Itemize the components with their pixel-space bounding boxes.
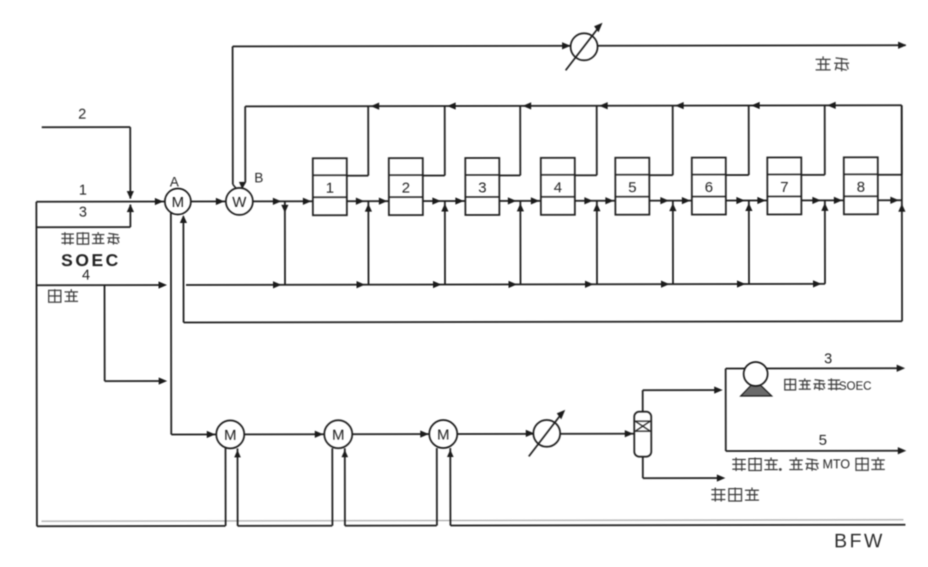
arrowhead condensate outlet bbox=[717, 474, 726, 481]
reactor stage 4 bbox=[541, 158, 575, 215]
label 再循环至SOEC bbox=[785, 378, 796, 390]
arrowhead BFW up into cooler at x=338 bbox=[341, 450, 348, 458]
arrowhead into mixer A bbox=[155, 198, 164, 205]
heater B bbox=[226, 188, 253, 215]
arrowhead mid header at column 3 bbox=[508, 281, 517, 288]
arrowhead mid header at column 1 bbox=[356, 281, 365, 288]
svg-text:4: 4 bbox=[554, 179, 562, 196]
arrowhead after reactor 7 bbox=[812, 197, 821, 204]
wire BFW pipes under cooler at x=230 bbox=[224, 448, 226, 525]
arrowhead into heater B bbox=[216, 198, 225, 205]
svg-text:3: 3 bbox=[824, 351, 832, 367]
svg-text:3: 3 bbox=[79, 205, 87, 221]
wire right vertical (header riser) bbox=[901, 105, 903, 321]
wire downcomer from mixer A bbox=[170, 213, 172, 435]
svg-text:M: M bbox=[332, 427, 345, 444]
wire upper recycle header bbox=[245, 105, 901, 106]
label 冷凝物 (condensate) bbox=[711, 488, 725, 502]
wire BFW line segment 1 bbox=[37, 525, 225, 527]
arrowhead into cooler 3 bbox=[420, 430, 429, 437]
svg-text:5: 5 bbox=[628, 179, 636, 196]
wire cooler1 to cooler2 bbox=[244, 433, 324, 435]
arrowhead end of main line bbox=[890, 197, 899, 204]
svg-text:1: 1 bbox=[326, 180, 334, 197]
wire main line reactor 4 to reactor 5 bbox=[575, 200, 615, 202]
arrowhead stream 3 joins node bbox=[127, 204, 134, 212]
arrowhead stream 2 joins node bbox=[127, 191, 134, 199]
label 空气 (air) bbox=[49, 289, 61, 303]
wire left border BFW riser bbox=[35, 202, 38, 526]
reactor stage 2 bbox=[389, 158, 423, 215]
arrowhead BFW up into cooler at x=443 bbox=[447, 450, 454, 458]
wire BFW line segment 2 bbox=[238, 525, 333, 527]
arrowhead into cooler 2 bbox=[315, 431, 324, 438]
wire steam feed line (stream 1) bbox=[36, 201, 164, 203]
svg-text:6: 6 bbox=[705, 179, 713, 196]
wire quench riser at column 4 bbox=[596, 201, 598, 284]
wire main line reactor 7 to reactor 8 bbox=[801, 199, 843, 201]
wire reactor 5 top outlet to header bbox=[649, 174, 673, 176]
arrowhead before reactor 1 bbox=[303, 198, 312, 205]
svg-text:2: 2 bbox=[78, 107, 86, 123]
arrowhead up into main line at column 2 bbox=[441, 204, 448, 212]
arrowhead overhead into fork bbox=[714, 386, 723, 393]
wire main line reactor 1 to reactor 2 bbox=[347, 200, 389, 202]
wire quench riser at column 2 bbox=[444, 201, 446, 284]
svg-text:1: 1 bbox=[79, 183, 87, 199]
svg-text:5: 5 bbox=[819, 432, 827, 449]
wire BFW line segment 4 bbox=[450, 524, 905, 527]
wire valve V2 to separator bbox=[560, 433, 634, 435]
reactor stage 3 bbox=[465, 158, 499, 215]
wire BFW pipes under cooler at x=443 bbox=[436, 448, 438, 525]
arrowhead before reactor 2 bbox=[379, 198, 388, 205]
wire quench riser at column 3 bbox=[519, 201, 521, 284]
svg-text:MTO: MTO bbox=[823, 457, 851, 471]
arrowhead after reactor 5 bbox=[660, 197, 669, 204]
arrowhead mid header at column 4 bbox=[585, 281, 594, 288]
arrowhead after reactor 1 bbox=[356, 198, 365, 205]
wire lower return header riser into A bbox=[182, 216, 184, 322]
separator S1 bbox=[634, 412, 651, 457]
wire main line reactor 6 to reactor 7 bbox=[726, 199, 767, 201]
reactor stage 5 bbox=[615, 158, 649, 215]
arrowhead air branch into downcomer bbox=[159, 377, 168, 384]
wire tail-gas line to vent bbox=[233, 45, 906, 46]
svg-text:B: B bbox=[254, 170, 263, 185]
svg-text:M: M bbox=[224, 427, 237, 444]
arrowhead up into main line at column 5 bbox=[669, 203, 676, 211]
label tail gas 尾气 bbox=[816, 56, 831, 70]
arrowhead before reactor 5 bbox=[605, 197, 614, 204]
arrowhead into separator bbox=[625, 430, 634, 437]
mixer A bbox=[165, 188, 191, 214]
reactor stage 1 bbox=[313, 158, 347, 215]
svg-text:2: 2 bbox=[402, 180, 410, 197]
arrowhead syngas outlet bbox=[898, 447, 907, 454]
arrowhead up into main line at column 6 bbox=[745, 203, 752, 211]
wire stream 4 air line bbox=[37, 284, 163, 286]
svg-text:SOEC: SOEC bbox=[61, 250, 121, 270]
arrowhead left on upper header at column 1 bbox=[371, 103, 380, 110]
valve V2 (letdown valve) bbox=[529, 410, 566, 457]
wire main line reactor 3 to reactor 4 bbox=[499, 200, 540, 202]
wire cooler2 to cooler3 bbox=[352, 433, 429, 435]
svg-text:4: 4 bbox=[82, 268, 90, 284]
wire air branch down bbox=[104, 285, 106, 381]
wire A to B bbox=[191, 200, 226, 202]
arrowhead before reactor 6 bbox=[682, 197, 691, 204]
arrowhead into cooler 1 bbox=[207, 431, 216, 438]
arrowhead left on upper header at column 2 bbox=[447, 102, 456, 109]
arrowhead up into mixer A bbox=[180, 215, 187, 223]
wire stream 2 feed bbox=[42, 126, 130, 128]
arrowhead before reactor 4 bbox=[531, 197, 540, 204]
arrowhead after reactor 6 bbox=[736, 197, 745, 204]
svg-text:W: W bbox=[232, 194, 247, 211]
wire reactor 4 top outlet to header bbox=[575, 174, 597, 176]
wire recycle to SOEC (stream 3 out) bbox=[726, 367, 901, 369]
wire first quench branch down bbox=[284, 201, 286, 284]
svg-text:SOEC: SOEC bbox=[839, 381, 872, 393]
wire BFW ghost line bbox=[41, 520, 903, 522]
cooler E1 bbox=[216, 420, 244, 448]
wire stream 3 feed bbox=[36, 226, 130, 228]
svg-text:8: 8 bbox=[857, 179, 865, 196]
arrowhead mid header at column 5 bbox=[661, 281, 670, 288]
label 合成气去往MTO回路 bbox=[732, 458, 746, 472]
wire quench riser at column 5 bbox=[672, 201, 674, 284]
reactor stage 8 bbox=[844, 157, 878, 214]
arrowhead up into main line at column 3 bbox=[517, 203, 524, 211]
label 再循环至 (recycle caption) bbox=[61, 232, 74, 245]
arrowhead down on first branch bbox=[281, 205, 288, 213]
arrowhead down into heater B bbox=[239, 182, 246, 190]
wire main line reactor 5 to reactor 6 bbox=[649, 200, 691, 202]
arrowhead into valve V2 bbox=[526, 430, 535, 437]
arrowhead stream 4 into downcomer bbox=[158, 281, 167, 288]
wire quench riser at column 6 bbox=[748, 201, 750, 284]
wire fork vertical bbox=[725, 369, 727, 451]
arrowhead after B bbox=[273, 198, 282, 205]
wire main line B to reactor 1 bbox=[253, 200, 313, 202]
wire quench riser at column 7 bbox=[824, 200, 826, 283]
arrowhead left on upper header at column 4 bbox=[599, 102, 608, 109]
arrowhead tail-gas outlet bbox=[898, 42, 907, 49]
svg-text:M: M bbox=[437, 426, 450, 443]
wire reactor 1 top outlet to header bbox=[347, 175, 368, 177]
svg-text:3: 3 bbox=[478, 179, 486, 196]
cooler E3 bbox=[429, 420, 457, 448]
arrowhead left on upper header at column 3 bbox=[523, 102, 532, 109]
arrowhead left on upper header at column 6 bbox=[751, 102, 760, 109]
wire lower return header bbox=[184, 321, 902, 322]
arrowhead mid header before first branch bbox=[273, 281, 282, 288]
wire reactor 6 top outlet to header bbox=[726, 174, 749, 176]
arrowhead after reactor 3 bbox=[508, 197, 517, 204]
wire upper header down into heater B bbox=[244, 106, 246, 182]
svg-text:A: A bbox=[170, 174, 179, 189]
arrowhead recycle to SOEC bbox=[897, 365, 906, 372]
wire reactor 8 top outlet to header bbox=[878, 174, 902, 176]
wire cooler3 to valve V2 bbox=[457, 433, 533, 435]
valve V1 (control valve on tail gas line) bbox=[566, 23, 603, 71]
wire quench riser at column 1 bbox=[367, 201, 369, 284]
wire main line after reactor 8 bbox=[878, 199, 902, 201]
cooler E2 bbox=[324, 420, 352, 448]
wire syngas to MTO (stream 5) bbox=[726, 450, 902, 452]
svg-text:BFW: BFW bbox=[834, 530, 885, 552]
arrowhead before reactor 3 bbox=[455, 197, 464, 204]
arrowhead on tail-gas line before valve bbox=[562, 42, 571, 49]
arrowhead left on upper header at column 7 bbox=[827, 102, 836, 109]
arrowhead BFW up into cooler at x=230 bbox=[234, 450, 241, 458]
arrowhead mid header at column 6 bbox=[737, 280, 746, 287]
arrowhead up on right vertical bbox=[898, 204, 905, 212]
arrowhead mid header at column 2 bbox=[433, 281, 442, 288]
wire condensate line bbox=[642, 457, 644, 478]
svg-text:7: 7 bbox=[780, 179, 788, 196]
svg-text:M: M bbox=[172, 194, 185, 211]
arrowhead up into main line at column 1 bbox=[365, 204, 372, 212]
wire main line reactor 2 to reactor 3 bbox=[423, 200, 465, 202]
wire reactor 2 top outlet to header bbox=[423, 175, 445, 177]
wire downcomer elbow to cooler 1 bbox=[171, 433, 216, 435]
wire from heater B up to tail-gas line bbox=[232, 46, 234, 184]
wire BFW pipes under cooler at x=338 bbox=[331, 448, 333, 525]
arrowhead up into main line at column 4 bbox=[593, 203, 600, 211]
arrowhead mid header at column 7 bbox=[813, 280, 822, 287]
arrowhead before reactor 8 bbox=[834, 197, 843, 204]
arrowhead before reactor 7 bbox=[757, 197, 766, 204]
arrowhead after reactor 2 bbox=[432, 197, 441, 204]
wire separator overhead bbox=[642, 390, 644, 411]
wire BFW line segment 3 bbox=[345, 525, 437, 527]
wire reactor 7 top outlet to header bbox=[801, 174, 824, 176]
wire reactor 3 top outlet to header bbox=[499, 174, 520, 176]
reactor stage 6 bbox=[692, 158, 726, 215]
arrowhead up into main line at column 7 bbox=[821, 203, 828, 211]
pump P1 bbox=[741, 362, 772, 396]
wire mid distribution header bbox=[186, 284, 825, 285]
arrowhead after reactor 4 bbox=[584, 197, 593, 204]
reactor stage 7 bbox=[767, 157, 801, 214]
arrowhead left on upper header at column 5 bbox=[675, 102, 684, 109]
